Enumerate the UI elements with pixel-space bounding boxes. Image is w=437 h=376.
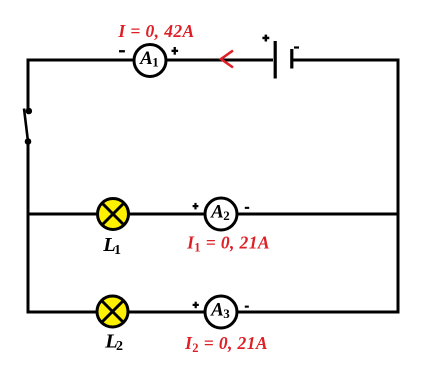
wire left vertical upper xyxy=(27,59,30,112)
switch S1 bottom contact xyxy=(25,138,32,145)
wire bottom rail left segment xyxy=(27,311,99,314)
wire bottom rail center segment xyxy=(128,311,206,314)
svg-text:A: A xyxy=(210,299,224,320)
svg-text:3: 3 xyxy=(223,306,230,321)
svg-text:1: 1 xyxy=(114,243,121,258)
wire left vertical lower xyxy=(27,142,30,314)
wire middle rail right segment xyxy=(237,213,399,216)
wire bottom rail right segment xyxy=(237,311,400,314)
A2 minus label xyxy=(245,207,249,209)
A1 plus label xyxy=(172,47,179,55)
wire top rail left segment xyxy=(27,59,135,62)
battery - label xyxy=(294,46,299,48)
A3 minus label xyxy=(245,306,249,308)
wire right vertical xyxy=(397,59,400,314)
wire top rail right segment xyxy=(292,59,400,62)
switch S1 lever xyxy=(24,109,28,142)
ammeter A2 xyxy=(205,198,237,230)
svg-text:1: 1 xyxy=(152,55,159,70)
switch S1 top contact xyxy=(26,108,33,115)
svg-text:2: 2 xyxy=(223,208,230,223)
lamp L2 xyxy=(97,296,128,327)
ammeter A1 xyxy=(134,45,166,77)
svg-text:A: A xyxy=(139,48,153,69)
svg-text:I = 0, 42A: I = 0, 42A xyxy=(117,21,194,41)
A3 plus label xyxy=(193,302,199,309)
battery B1 positive plate xyxy=(274,41,277,79)
svg-text:2: 2 xyxy=(116,339,123,354)
wire top rail between A1 and battery xyxy=(166,59,273,62)
current direction arrow (red) xyxy=(221,51,233,68)
svg-text:A: A xyxy=(210,201,224,222)
battery + label xyxy=(262,35,269,42)
A1 minus label xyxy=(119,50,125,52)
ammeter A3 xyxy=(205,296,237,328)
wire middle rail left segment xyxy=(28,213,99,216)
battery B1 negative plate xyxy=(290,49,293,69)
lamp L1 xyxy=(98,199,129,230)
wire middle rail center segment xyxy=(128,213,206,216)
A2 plus label xyxy=(193,203,199,210)
